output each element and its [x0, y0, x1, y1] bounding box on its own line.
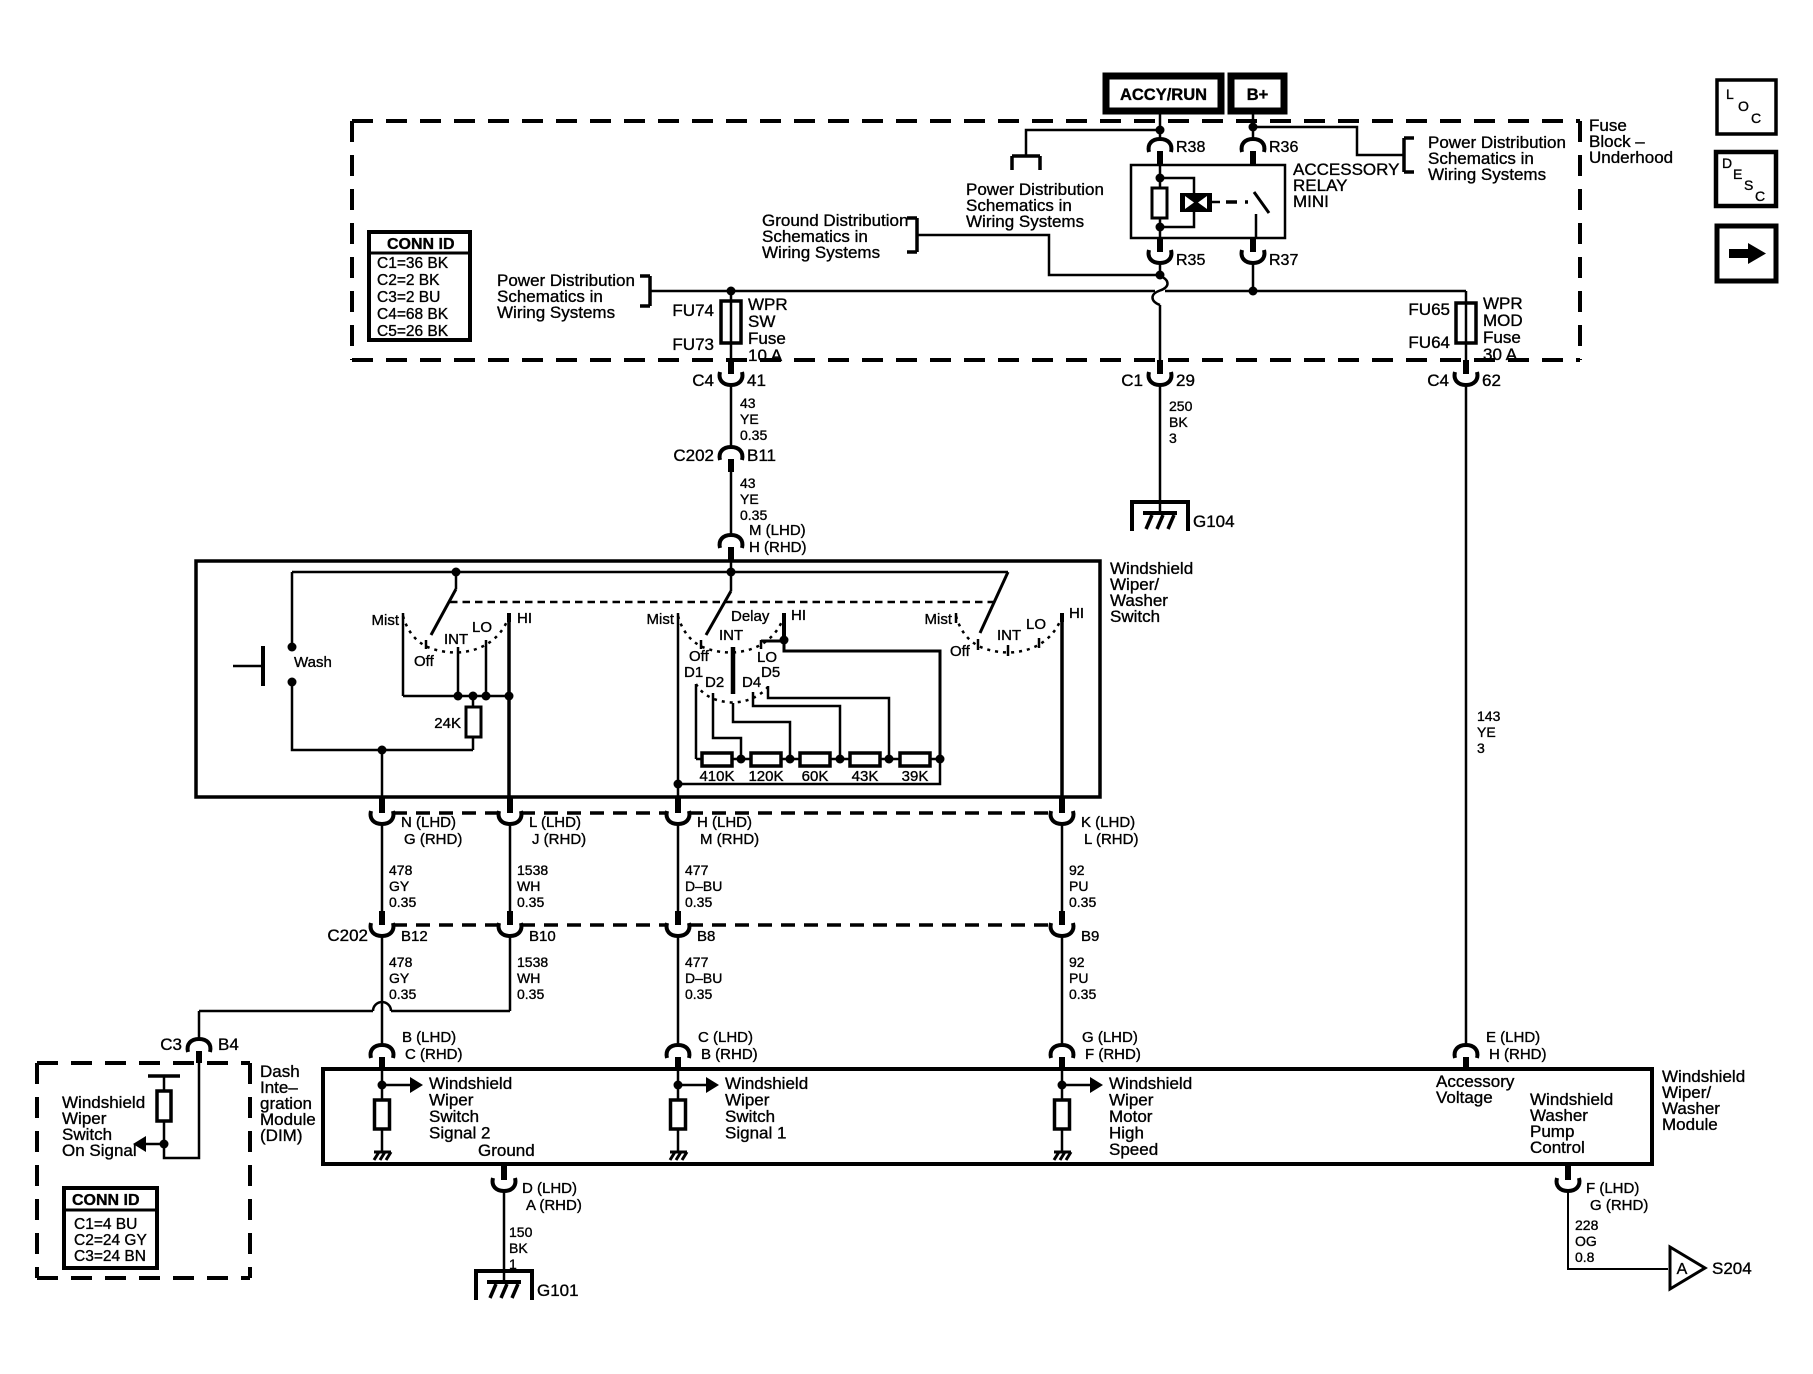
svg-text:R35: R35: [1176, 252, 1205, 269]
svg-text:43: 43: [740, 475, 756, 491]
svg-text:62: 62: [1482, 371, 1501, 390]
svg-text:C5=26 BK: C5=26 BK: [377, 323, 449, 340]
svg-text:CONN ID: CONN ID: [387, 236, 455, 253]
svg-text:D–BU: D–BU: [685, 970, 722, 986]
svg-text:WH: WH: [517, 970, 540, 986]
svg-text:0.35: 0.35: [685, 894, 712, 910]
svg-text:B11: B11: [747, 446, 776, 465]
svg-text:C4: C4: [692, 371, 714, 390]
svg-text:GY: GY: [389, 970, 410, 986]
svg-text:Wash: Wash: [294, 654, 332, 671]
svg-text:FU65: FU65: [1408, 300, 1450, 319]
svg-text:Mist: Mist: [372, 612, 400, 629]
svg-text:0.35: 0.35: [740, 427, 767, 443]
svg-text:R37: R37: [1269, 252, 1298, 269]
svg-text:0.35: 0.35: [1069, 986, 1096, 1002]
svg-text:N (LHD): N (LHD): [401, 814, 456, 831]
svg-text:Voltage: Voltage: [1436, 1088, 1493, 1107]
svg-text:C: C: [1751, 110, 1761, 126]
svg-text:C1=36 BK: C1=36 BK: [377, 255, 449, 272]
svg-text:C3=24 BN: C3=24 BN: [74, 1248, 146, 1265]
svg-text:43: 43: [740, 395, 756, 411]
svg-text:C1=4 BU: C1=4 BU: [74, 1216, 137, 1233]
svg-text:Wiring Systems: Wiring Systems: [966, 212, 1084, 231]
svg-text:G101: G101: [537, 1281, 579, 1300]
svg-text:O: O: [1738, 98, 1749, 114]
svg-text:HI: HI: [1069, 605, 1084, 622]
svg-text:478: 478: [389, 862, 413, 878]
svg-text:C (LHD): C (LHD): [698, 1029, 753, 1046]
svg-text:250: 250: [1169, 398, 1193, 414]
svg-text:29: 29: [1176, 371, 1195, 390]
svg-text:G (RHD): G (RHD): [1590, 1197, 1648, 1214]
svg-text:D2: D2: [705, 674, 724, 691]
svg-text:D: D: [1722, 155, 1732, 171]
svg-text:FU64: FU64: [1408, 333, 1450, 352]
svg-text:39K: 39K: [902, 768, 929, 785]
svg-text:A: A: [1677, 1261, 1688, 1278]
svg-text:60K: 60K: [802, 768, 829, 785]
svg-text:1538: 1538: [517, 954, 548, 970]
svg-text:B+: B+: [1247, 86, 1269, 104]
svg-text:HI: HI: [791, 607, 806, 624]
svg-text:LO: LO: [472, 619, 492, 636]
svg-text:0.35: 0.35: [1069, 894, 1096, 910]
svg-text:D–BU: D–BU: [685, 878, 722, 894]
svg-text:L (LHD): L (LHD): [529, 814, 581, 831]
svg-text:INT: INT: [997, 627, 1021, 644]
svg-text:478: 478: [389, 954, 413, 970]
svg-text:Off: Off: [950, 643, 971, 660]
svg-text:C1: C1: [1121, 371, 1143, 390]
svg-text:J (RHD): J (RHD): [532, 831, 586, 848]
svg-text:Switch: Switch: [1110, 607, 1160, 626]
svg-text:D4: D4: [742, 674, 761, 691]
svg-text:MINI: MINI: [1293, 192, 1329, 211]
svg-text:A (RHD): A (RHD): [526, 1197, 582, 1214]
svg-text:R38: R38: [1176, 139, 1205, 156]
svg-text:C4=68 BK: C4=68 BK: [377, 306, 449, 323]
svg-text:C (RHD): C (RHD): [405, 1046, 463, 1063]
svg-text:B10: B10: [529, 928, 556, 945]
svg-text:Speed: Speed: [1109, 1140, 1158, 1159]
svg-text:K (LHD): K (LHD): [1081, 814, 1135, 831]
svg-text:R36: R36: [1269, 139, 1298, 156]
svg-text:10 A: 10 A: [748, 346, 783, 365]
svg-text:G (RHD): G (RHD): [404, 831, 462, 848]
svg-text:Delay: Delay: [731, 608, 770, 625]
svg-text:F (RHD): F (RHD): [1085, 1046, 1141, 1063]
svg-text:Module: Module: [1662, 1115, 1718, 1134]
svg-text:3: 3: [1169, 430, 1177, 446]
svg-text:B (RHD): B (RHD): [701, 1046, 758, 1063]
svg-text:WH: WH: [517, 878, 540, 894]
svg-text:M (LHD): M (LHD): [749, 522, 806, 539]
svg-text:228: 228: [1575, 1217, 1599, 1233]
svg-text:0.35: 0.35: [517, 894, 544, 910]
svg-text:C2=2 BK: C2=2 BK: [377, 272, 440, 289]
svg-text:L (RHD): L (RHD): [1084, 831, 1138, 848]
svg-text:150: 150: [509, 1224, 533, 1240]
svg-text:B (LHD): B (LHD): [402, 1029, 456, 1046]
svg-text:ACCY/RUN: ACCY/RUN: [1120, 86, 1207, 104]
svg-text:410K: 410K: [699, 768, 734, 785]
svg-text:HI: HI: [517, 610, 532, 627]
svg-text:L: L: [1726, 86, 1734, 102]
svg-text:92: 92: [1069, 862, 1085, 878]
svg-text:D5: D5: [761, 664, 780, 681]
svg-text:Off: Off: [414, 653, 435, 670]
svg-text:Signal 1: Signal 1: [725, 1124, 786, 1143]
svg-text:0.35: 0.35: [685, 986, 712, 1002]
svg-text:F (LHD): F (LHD): [1586, 1180, 1639, 1197]
svg-text:24K: 24K: [434, 715, 461, 732]
svg-text:YE: YE: [740, 411, 759, 427]
svg-text:FU73: FU73: [672, 335, 714, 354]
svg-text:E (LHD): E (LHD): [1486, 1029, 1540, 1046]
svg-text:C4: C4: [1427, 371, 1449, 390]
svg-text:30 A: 30 A: [1483, 345, 1518, 364]
svg-text:BK: BK: [1169, 414, 1188, 430]
svg-text:H (LHD): H (LHD): [697, 814, 752, 831]
svg-text:C202: C202: [673, 446, 714, 465]
svg-text:G (LHD): G (LHD): [1082, 1029, 1138, 1046]
svg-text:Ground: Ground: [478, 1141, 535, 1160]
svg-text:C3=2 BU: C3=2 BU: [377, 289, 440, 306]
svg-text:S: S: [1744, 177, 1753, 193]
svg-text:FU74: FU74: [672, 301, 714, 320]
svg-text:Mist: Mist: [925, 611, 953, 628]
svg-text:INT: INT: [444, 631, 468, 648]
svg-text:Wiring Systems: Wiring Systems: [1428, 165, 1546, 184]
svg-text:PU: PU: [1069, 970, 1088, 986]
svg-text:Wiring Systems: Wiring Systems: [762, 243, 880, 262]
svg-text:YE: YE: [740, 491, 759, 507]
svg-text:Signal 2: Signal 2: [429, 1124, 490, 1143]
svg-text:E: E: [1733, 166, 1742, 182]
svg-text:On Signal: On Signal: [62, 1141, 137, 1160]
svg-text:43K: 43K: [852, 768, 879, 785]
svg-text:(DIM): (DIM): [260, 1126, 302, 1145]
svg-text:Wiring Systems: Wiring Systems: [497, 303, 615, 322]
svg-text:Control: Control: [1530, 1138, 1585, 1157]
svg-text:M (RHD): M (RHD): [700, 831, 759, 848]
svg-text:PU: PU: [1069, 878, 1088, 894]
svg-text:1538: 1538: [517, 862, 548, 878]
svg-text:143: 143: [1477, 708, 1501, 724]
svg-text:Mist: Mist: [647, 611, 675, 628]
svg-text:D1: D1: [684, 664, 703, 681]
svg-text:0.35: 0.35: [517, 986, 544, 1002]
svg-text:477: 477: [685, 954, 709, 970]
svg-text:D (LHD): D (LHD): [522, 1180, 577, 1197]
svg-text:3: 3: [1477, 740, 1485, 756]
svg-text:Off: Off: [689, 648, 710, 665]
svg-text:BK: BK: [509, 1240, 528, 1256]
svg-text:0.8: 0.8: [1575, 1249, 1595, 1265]
svg-text:YE: YE: [1477, 724, 1496, 740]
svg-text:0.35: 0.35: [389, 894, 416, 910]
svg-text:H (RHD): H (RHD): [749, 539, 807, 556]
svg-text:G104: G104: [1193, 512, 1235, 531]
svg-text:GY: GY: [389, 878, 410, 894]
svg-text:CONN ID: CONN ID: [72, 1192, 140, 1209]
svg-text:B4: B4: [218, 1035, 239, 1054]
svg-text:B12: B12: [401, 928, 428, 945]
svg-text:C3: C3: [160, 1035, 182, 1054]
svg-text:92: 92: [1069, 954, 1085, 970]
svg-text:0.35: 0.35: [740, 507, 767, 523]
svg-text:C202: C202: [327, 926, 368, 945]
svg-text:41: 41: [747, 371, 766, 390]
svg-text:0.35: 0.35: [389, 986, 416, 1002]
svg-text:B8: B8: [697, 928, 715, 945]
svg-text:H (RHD): H (RHD): [1489, 1046, 1547, 1063]
svg-text:B9: B9: [1081, 928, 1099, 945]
svg-text:S204: S204: [1712, 1259, 1752, 1278]
svg-text:477: 477: [685, 862, 709, 878]
svg-text:120K: 120K: [748, 768, 783, 785]
svg-text:Underhood: Underhood: [1589, 148, 1673, 167]
svg-text:C: C: [1755, 188, 1765, 204]
svg-text:C2=24 GY: C2=24 GY: [74, 1232, 147, 1249]
svg-text:OG: OG: [1575, 1233, 1597, 1249]
svg-text:LO: LO: [1026, 616, 1046, 633]
svg-text:INT: INT: [719, 627, 743, 644]
